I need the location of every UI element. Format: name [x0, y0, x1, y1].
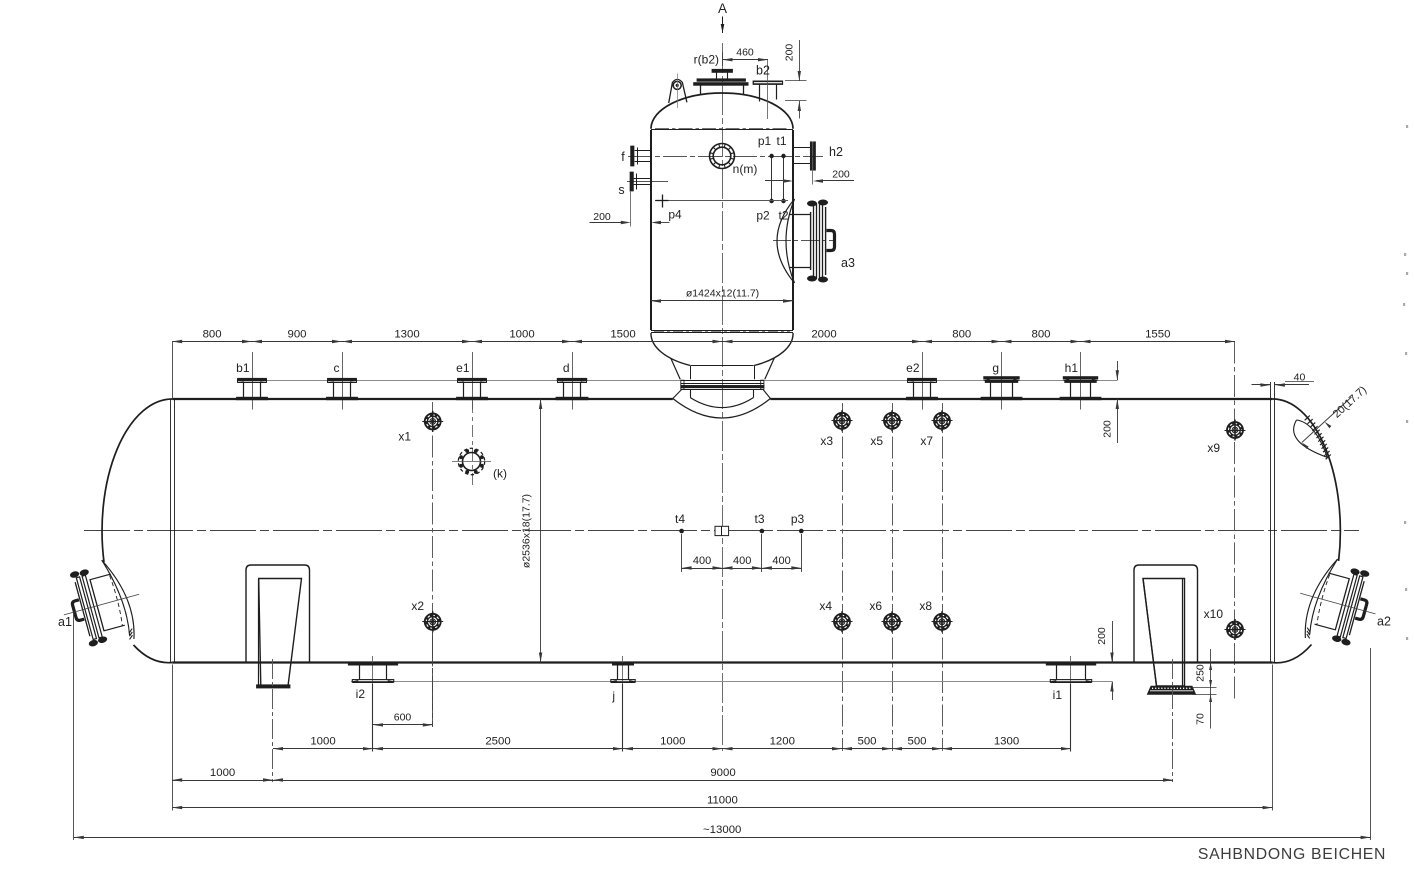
left saddle centerline — [272, 659, 274, 782]
svg-text:p3: p3 — [791, 512, 805, 526]
nozzle a3 centerline — [773, 240, 836, 242]
svg-text:~13000: ~13000 — [703, 824, 741, 836]
svg-text:x10: x10 — [1204, 607, 1224, 621]
nozzle e2 — [922, 352, 924, 410]
svg-text:x9: x9 — [1207, 441, 1220, 455]
bottom dimension row 4 — [74, 837, 1371, 839]
svg-text:p4: p4 — [668, 208, 682, 222]
leader line for 20(17.7) — [1302, 397, 1352, 443]
nozzle c — [342, 352, 344, 410]
bolt x10 — [1227, 621, 1244, 638]
extension lines t4 t3 p3 — [681, 534, 683, 572]
right head-shell weld seam double line (extended up for 40 dim) — [1270, 382, 1272, 663]
manway cover small blind flange — [712, 69, 733, 72]
svg-text:800: 800 — [203, 328, 222, 340]
right saddle web trapezoid — [1143, 579, 1185, 687]
svg-text:400: 400 — [772, 555, 790, 567]
bolt x4 — [834, 613, 851, 630]
drum nozzle flare left — [673, 390, 682, 399]
svg-text:b1: b1 — [236, 361, 250, 375]
nozzle b2 on dome — [753, 81, 783, 85]
left elliptical head (interrupted at a1 opening) — [102, 399, 172, 562]
svg-text:x6: x6 — [869, 599, 882, 613]
svg-text:x1: x1 — [398, 430, 411, 444]
dimension 250 and 70 right saddle — [1210, 649, 1212, 729]
nozzle a3 flange stack — [810, 212, 812, 270]
svg-text:200: 200 — [1096, 627, 1108, 645]
nozzle j — [622, 656, 624, 684]
column shell right wall — [792, 130, 794, 330]
nozzle a2 on right head — [1289, 552, 1387, 654]
svg-text:ø1424x12(11.7): ø1424x12(11.7) — [686, 288, 759, 300]
svg-text:600: 600 — [394, 712, 412, 724]
top dimension chain row — [172, 341, 1235, 343]
extension a1 for 13000 — [73, 612, 75, 840]
right elliptical head (interrupted at a2 opening) — [1273, 399, 1341, 561]
svg-text:800: 800 — [1031, 328, 1050, 340]
nozzle a3 crescent shell opening — [777, 199, 795, 283]
dimension diameter 2536 — [540, 399, 542, 663]
column nozzle centerline f n(m) h2 — [628, 156, 823, 158]
drum nozzle opening outer arc — [673, 399, 771, 419]
transition cone left — [671, 358, 680, 379]
svg-text:500: 500 — [857, 736, 876, 748]
nozzle f — [631, 146, 634, 166]
svg-text:a3: a3 — [841, 256, 855, 270]
nozzle a3 bolts — [807, 201, 817, 207]
svg-text:g: g — [992, 361, 999, 375]
manway main flange pair — [697, 79, 746, 82]
svg-text:x8: x8 — [919, 599, 932, 613]
svg-text:t4: t4 — [675, 512, 685, 526]
svg-text:1300: 1300 — [994, 736, 1019, 748]
svg-text:2000: 2000 — [811, 328, 836, 340]
bolt x9 — [1227, 422, 1244, 439]
svg-text:800: 800 — [952, 328, 971, 340]
svg-text:1000: 1000 — [310, 736, 335, 748]
nozzle a3 neck — [789, 214, 810, 216]
transition cone right — [765, 358, 774, 379]
nozzle e1 — [472, 352, 474, 410]
svg-text:e1: e1 — [456, 361, 470, 375]
bottom extension right tangent — [1272, 665, 1274, 811]
nozzle h1 — [1080, 352, 1082, 410]
dimension 200 top right — [1117, 361, 1119, 380]
svg-text:x2: x2 — [411, 599, 424, 613]
svg-text:SAHBNDONG BEICHEN: SAHBNDONG BEICHEN — [1198, 846, 1386, 863]
bottom dimension row 2 — [172, 780, 1173, 782]
svg-text:b2: b2 — [756, 64, 770, 78]
p4 reference line — [655, 200, 788, 202]
dimension 460 top — [723, 59, 769, 61]
svg-text:1500: 1500 — [610, 328, 635, 340]
extension a2 for 13000 — [1370, 648, 1372, 840]
svg-text:p1: p1 — [758, 134, 772, 148]
svg-text:a1: a1 — [58, 615, 72, 629]
left saddle base plate — [257, 685, 291, 688]
svg-text:250: 250 — [1195, 664, 1207, 682]
svg-text:c: c — [334, 361, 340, 375]
svg-text:e2: e2 — [906, 361, 920, 375]
nozzle s — [630, 172, 633, 191]
svg-text:400: 400 — [733, 555, 751, 567]
svg-text:f: f — [621, 150, 625, 164]
nozzle a1 on left head — [53, 553, 151, 655]
nozzle i2 — [372, 656, 374, 684]
main vertical centerline of column/drum — [722, 43, 724, 751]
svg-text:p2: p2 — [756, 209, 770, 223]
svg-text:x7: x7 — [920, 434, 933, 448]
svg-text:(k): (k) — [493, 467, 507, 481]
nozzle b1 — [252, 352, 254, 410]
dimension 600 row — [432, 631, 434, 727]
svg-text:900: 900 — [287, 328, 306, 340]
bottom dimension row 1 — [273, 748, 1071, 750]
bolt x3 — [834, 412, 851, 429]
drum horizontal centerline — [84, 530, 1359, 532]
centerline x5-x6 bolts — [892, 403, 894, 751]
svg-text:70: 70 — [1195, 713, 1207, 725]
lifting lug on dome — [669, 79, 687, 103]
head plate hatch marks — [1305, 416, 1310, 421]
bolt x1 — [424, 413, 441, 430]
nozzle a3 davit handle — [827, 231, 835, 251]
bolt x5 — [884, 412, 901, 429]
svg-text:s: s — [618, 183, 624, 197]
nozzle h2 — [793, 147, 810, 149]
column bottom head (truncated by drum nozzle) — [651, 333, 690, 366]
centerline x7-x8 bolts — [942, 403, 944, 751]
dimension 400 x3 — [682, 568, 802, 570]
left saddle outer plate — [246, 565, 310, 663]
left head-shell weld seam double line — [170, 399, 172, 663]
svg-text:i2: i2 — [356, 687, 366, 701]
centerline e1 to (k) flange — [472, 401, 474, 489]
nozzle s centerline — [627, 181, 668, 183]
svg-text:200: 200 — [832, 169, 850, 181]
right saddle sliding base plate with hatch — [1148, 686, 1196, 694]
internal detail square on drum centerline — [715, 526, 729, 535]
top flange-face reference line — [238, 380, 1118, 382]
svg-text:x4: x4 — [819, 599, 832, 613]
svg-text:t1: t1 — [776, 134, 786, 148]
left saddle web trapezoid — [259, 579, 302, 687]
svg-text:200: 200 — [1102, 420, 1114, 438]
svg-text:t3: t3 — [754, 512, 764, 526]
bolt x7 — [934, 412, 951, 429]
bottom dimension row 3 — [172, 807, 1272, 809]
transition cone inner verticals — [690, 366, 692, 379]
svg-text:2500: 2500 — [485, 736, 510, 748]
p4 cross marker — [656, 200, 669, 202]
dimension diameter 1424 — [651, 300, 793, 302]
top extension line at left tangent — [172, 342, 174, 400]
drum nozzle flare right — [763, 390, 770, 399]
manway neck — [700, 85, 702, 94]
svg-text:r(b2): r(b2) — [694, 53, 719, 67]
svg-text:j: j — [611, 689, 615, 703]
svg-text:460: 460 — [736, 47, 754, 59]
centerline x1-x2 bolts — [432, 402, 434, 727]
svg-text:200: 200 — [784, 44, 796, 62]
svg-text:ø2536x18(17.7): ø2536x18(17.7) — [521, 494, 533, 568]
points t4 t3 p3 on centerline — [679, 529, 684, 534]
svg-text:x3: x3 — [820, 434, 833, 448]
column top dome head — [651, 93, 793, 129]
svg-text:x5: x5 — [870, 434, 883, 448]
bolt x6 — [884, 613, 901, 630]
svg-text:h1: h1 — [1065, 361, 1079, 375]
svg-text:d: d — [563, 361, 570, 375]
svg-text:500: 500 — [907, 736, 926, 748]
svg-text:11000: 11000 — [707, 794, 738, 806]
svg-text:200: 200 — [593, 211, 611, 223]
nozzle b2 centerline — [767, 60, 769, 119]
bolt x2 — [424, 613, 441, 630]
flange (k) front view — [458, 448, 484, 474]
svg-text:n(m): n(m) — [733, 162, 758, 176]
drum nozzle neck verticals — [690, 389, 692, 397]
clipped border text marks at right edge — [1406, 125, 1408, 128]
bottom extension left tangent — [172, 665, 174, 811]
svg-text:1000: 1000 — [210, 767, 235, 779]
nozzle h2 flange face extension — [812, 170, 814, 184]
bolt x8 — [934, 613, 951, 630]
dimension 200 at s nozzle — [630, 192, 632, 227]
drum nozzle opening inner arc — [690, 398, 753, 408]
nozzle g — [1001, 352, 1003, 410]
svg-text:1000: 1000 — [660, 736, 685, 748]
points p1 t1 with drop lines — [771, 156, 773, 201]
svg-text:1300: 1300 — [394, 328, 419, 340]
svg-text:1200: 1200 — [770, 736, 795, 748]
centerline x3-x4 bolts — [842, 403, 844, 751]
column bottom tangent seam double line — [651, 330, 793, 332]
nozzle d — [572, 352, 574, 410]
right saddle outer plate — [1134, 565, 1198, 663]
drum nozzle flange pair under column — [681, 380, 764, 382]
bottom flange-face reference line — [351, 681, 1112, 683]
svg-text:400: 400 — [693, 555, 711, 567]
head plate section lens — [1294, 420, 1328, 457]
svg-text:i1: i1 — [1053, 688, 1063, 702]
dimension 40 right tangent — [1252, 384, 1271, 386]
svg-text:a2: a2 — [1377, 615, 1391, 629]
dimension 200 bottom right — [1112, 621, 1114, 663]
svg-text:9000: 9000 — [710, 767, 735, 779]
dimension 200 at b2 — [799, 40, 801, 81]
manway n(m) front view — [710, 144, 735, 169]
svg-text:1550: 1550 — [1145, 328, 1170, 340]
column top tangent seam — [651, 129, 793, 131]
manway small neck — [716, 72, 718, 78]
dimension 200 at h2 — [765, 180, 790, 182]
drum shell top line (interrupted by column nozzle opening) — [172, 398, 673, 400]
transition cone top edge — [691, 365, 754, 367]
centerline x9-x10 bolts — [1234, 342, 1236, 701]
svg-text:1000: 1000 — [509, 328, 534, 340]
nozzle i1 — [1070, 656, 1072, 684]
column shell left wall — [650, 130, 652, 330]
svg-text:h2: h2 — [829, 145, 843, 159]
svg-text:A: A — [718, 1, 727, 16]
drum shell bottom line — [172, 661, 1272, 663]
right saddle centerline — [1172, 659, 1174, 782]
